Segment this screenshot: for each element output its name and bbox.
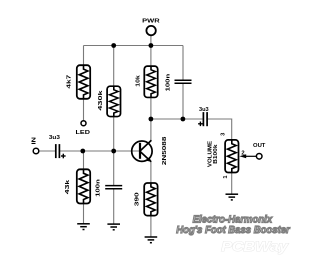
- svg-text:10k: 10k: [135, 74, 141, 86]
- wire: volume pin 1 to ground: [231, 172, 233, 194]
- svg-text:LED: LED: [76, 130, 90, 136]
- svg-text:Hog's Foot Bass Booster: Hog's Foot Bass Booster: [176, 225, 290, 236]
- terminal IN: [31, 137, 38, 154]
- svg-text:OUT: OUT: [253, 143, 266, 149]
- wire: R3 bottom to collector node: [150, 97, 152, 119]
- ground G3 (R5): [145, 237, 158, 243]
- wire: collector bus: [151, 118, 203, 120]
- capacitor C3 100n (supply filter): [175, 80, 192, 83]
- svg-text:3u3: 3u3: [199, 107, 209, 113]
- wire: C1 to base node and Q1 base: [60, 150, 140, 152]
- svg-text:4k7: 4k7: [67, 75, 73, 89]
- wire: collector node to Q1 collector: [150, 119, 152, 141]
- wire: V+ top bus: [84, 45, 184, 47]
- ground G4 (volume pin 1): [226, 194, 239, 200]
- svg-text:430k: 430k: [98, 89, 104, 110]
- wire: C2 bottom to ground: [113, 189, 115, 224]
- wiper arrow: [239, 154, 256, 158]
- wire: IN terminal to C1: [39, 150, 55, 152]
- resistor R3 10k: [144, 66, 157, 97]
- capacitor C2 100n (base to ground): [105, 186, 122, 189]
- junction collector node / C3: [181, 117, 186, 122]
- polarity plus C4: [198, 122, 203, 127]
- wire: bus to R3 10k top: [150, 46, 152, 67]
- wire: bus to R2 430k top: [113, 46, 115, 87]
- wire: node to C2 100n top: [113, 151, 115, 185]
- svg-text:PCBWay: PCBWay: [221, 239, 289, 255]
- capacitor C1 3u3 (input electrolytic): [56, 144, 60, 158]
- resistor R5 390: [144, 183, 157, 216]
- svg-text:2N5088: 2N5088: [162, 136, 168, 166]
- junction node V+ / R2: [111, 43, 116, 48]
- ground G1 (R4): [77, 224, 90, 230]
- resistor R2 430k: [107, 86, 120, 116]
- svg-text:100n: 100n: [96, 179, 102, 197]
- svg-text:B100k: B100k: [213, 144, 219, 164]
- junction base node / C1-R4: [80, 149, 85, 154]
- svg-text:PWR: PWR: [142, 19, 161, 25]
- wire: bus to R1 4k7 top: [83, 46, 85, 67]
- svg-text:100n: 100n: [166, 73, 172, 91]
- svg-text:Electro-Harmonix: Electro-Harmonix: [193, 215, 274, 226]
- wire: R1 bottom to LED pad: [83, 98, 85, 121]
- wire: base node down to R4 43k: [83, 151, 85, 170]
- wire: C4 to volume pin 3: [208, 119, 232, 140]
- svg-text:3u3: 3u3: [49, 135, 61, 141]
- junction node V+ / PWR: [149, 43, 154, 48]
- svg-text:IN: IN: [31, 137, 37, 145]
- capacitor C4 3u3 (output electrolytic): [203, 112, 207, 126]
- polarity plus C1: [61, 154, 66, 159]
- svg-text:2: 2: [241, 151, 244, 157]
- wire: PWR terminal drop: [150, 35, 152, 46]
- junction collector node / R3: [149, 117, 154, 122]
- terminal OUT: [253, 143, 266, 159]
- svg-text:390: 390: [134, 192, 140, 206]
- svg-text:43k: 43k: [65, 179, 71, 195]
- resistor R1 4k7: [77, 65, 90, 99]
- wire: R5 bottom to ground: [150, 215, 152, 237]
- potentiometer VOLUME B100k: [225, 140, 238, 173]
- wire: R4 bottom to ground: [83, 203, 85, 224]
- wire: Q1 emitter to R5 390: [150, 162, 152, 184]
- wire: C3 bottom to collector bus: [182, 84, 184, 120]
- resistor R4 43k: [77, 169, 90, 203]
- ground G2 (C2): [107, 224, 120, 230]
- terminal LED pad: [76, 121, 90, 136]
- terminal PWR: [142, 19, 161, 36]
- junction base node / C2: [111, 149, 116, 154]
- transistor Q1 2N5088: [132, 140, 152, 162]
- wire: R2 bottom to base node: [113, 116, 115, 151]
- wire: bus corner down to C3 100n: [182, 46, 184, 80]
